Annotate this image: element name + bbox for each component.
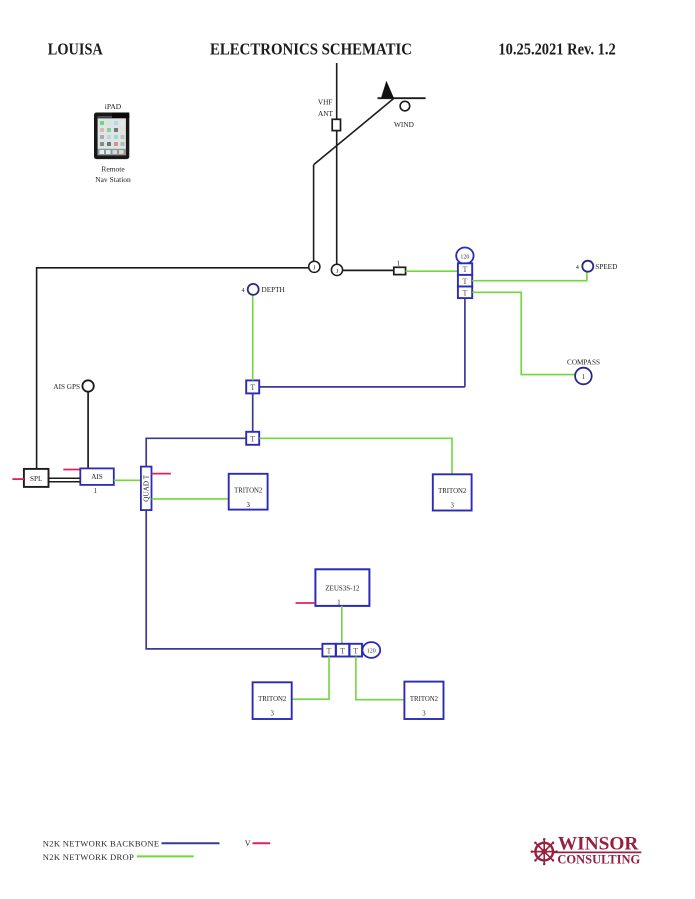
svg-text:AIS GPS: AIS GPS [53,383,80,391]
svg-text:T: T [327,646,332,655]
svg-text:Remote: Remote [101,165,125,174]
svg-text:3: 3 [422,711,426,718]
svg-text:SPEED: SPEED [595,263,617,271]
svg-text:CONSULTING: CONSULTING [557,852,640,867]
svg-text:120: 120 [460,254,469,260]
svg-text:T: T [250,383,255,392]
svg-text:ZEUS3S-12: ZEUS3S-12 [325,585,360,593]
svg-text:1: 1 [337,600,340,607]
svg-text:ANT: ANT [318,109,334,118]
svg-text:iPAD: iPAD [105,102,122,111]
svg-text:T: T [463,288,468,297]
svg-text:TRITON2: TRITON2 [234,488,263,495]
svg-text:COMPASS: COMPASS [567,359,600,367]
svg-text:VHF: VHF [318,98,333,107]
svg-text:4: 4 [242,288,245,294]
svg-text:TRITON2: TRITON2 [410,696,439,703]
svg-text:ELECTRONICS SCHEMATIC: ELECTRONICS SCHEMATIC [210,39,412,58]
svg-text:TRITON2: TRITON2 [258,696,287,703]
svg-text:1: 1 [397,260,400,267]
svg-text:AIS: AIS [91,473,103,481]
svg-text:Nav Station: Nav Station [95,175,131,184]
svg-text:LOUISA: LOUISA [48,39,103,58]
svg-text:10.25.2021 Rev. 1.2: 10.25.2021 Rev. 1.2 [498,39,615,58]
svg-text:DEPTH: DEPTH [262,286,285,294]
svg-text:3: 3 [270,711,274,718]
svg-text:120: 120 [367,649,376,655]
svg-text:SPL: SPL [30,475,42,483]
svg-text:3: 3 [450,503,454,510]
svg-text:T: T [353,646,358,655]
svg-text:V: V [245,839,251,848]
svg-text:1: 1 [94,488,97,495]
svg-text:N2K NETWORK DROP: N2K NETWORK DROP [43,852,134,862]
svg-text:1: 1 [582,373,586,381]
svg-text:N2K NETWORK BACKBONE: N2K NETWORK BACKBONE [43,838,159,848]
svg-text:J: J [336,268,339,275]
svg-text:QUAD T: QUAD T [142,474,150,501]
svg-text:T: T [340,646,345,655]
svg-text:4: 4 [576,265,579,271]
svg-text:WIND: WIND [394,120,414,129]
svg-text:T: T [250,435,255,444]
svg-text:T: T [463,277,468,286]
svg-text:T: T [463,265,468,274]
svg-text:3: 3 [246,502,250,509]
svg-text:TRITON2: TRITON2 [438,488,467,495]
svg-text:J: J [313,265,316,272]
